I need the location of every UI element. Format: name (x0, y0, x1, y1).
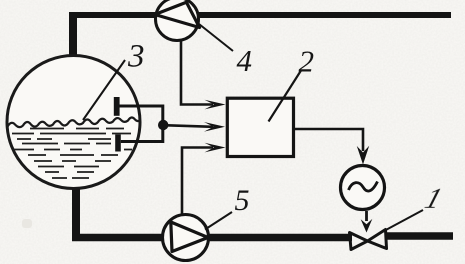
arrowhead down into valve (361, 219, 373, 233)
controller box 2 (227, 98, 293, 156)
svg-text:2: 2 (299, 44, 315, 79)
lower level probe (electrode bar) (115, 135, 121, 152)
wire: controller to pump 5 branch (182, 148, 213, 219)
valve 1 (bowtie left triangle) (350, 233, 368, 250)
svg-text:5: 5 (235, 184, 250, 217)
lower probe lead wire (121, 140, 163, 143)
label line to tank (3) (83, 60, 125, 120)
label line to controller (2) (269, 71, 302, 122)
probe connector vertical wire (161, 105, 164, 144)
label line to pump 4 (199, 24, 233, 51)
arrowhead into controller input 1 (205, 100, 226, 110)
wire: transducer down to valve (365, 211, 368, 221)
pump 5 triangle (171, 222, 208, 252)
pipe: bottom horizontal valve to right end (385, 232, 453, 240)
wire: pump 4 down to controller (181, 39, 213, 105)
junction node dot (158, 120, 168, 130)
pump 5 (circle) (163, 215, 209, 261)
pipe: top horizontal from pump 4 to right end (199, 12, 451, 18)
pipe: bottom horizontal pump 5 to valve (209, 234, 352, 242)
wire: junction dot to controller (167, 125, 213, 127)
upper probe lead wire (120, 105, 163, 108)
wire: controller output to transducer (294, 129, 364, 151)
tank vessel (circle) (7, 56, 140, 189)
label line to pump 5 (205, 212, 232, 230)
pipe: bottom riser from tank bottom (72, 186, 80, 238)
svg-text:4: 4 (237, 43, 253, 78)
arrowhead down into transducer (357, 146, 369, 165)
tank liquid hatching dashes (12, 129, 132, 179)
arrowhead into controller input 3 (205, 143, 226, 153)
sine wave symbol (349, 182, 378, 192)
svg-text:3: 3 (127, 39, 145, 75)
pump 4 triangle (155, 2, 200, 27)
pipe: bottom horizontal to pump 5 (72, 234, 166, 242)
pipe: top horizontal line to pump 4 (69, 12, 155, 18)
pump 4 (circle) (156, 0, 199, 41)
faint scan smudge bottom left (22, 219, 32, 228)
upper level probe (electrode bar) (114, 97, 120, 116)
label line to valve (1) (383, 210, 423, 232)
valve 1 (bowtie right triangle) (368, 230, 387, 249)
transducer (circle with sine) (341, 166, 385, 210)
pipe: top riser from tank top (69, 15, 77, 57)
tank liquid surface wavy line (8, 117, 140, 127)
arrowhead into controller input 2 (204, 122, 225, 132)
